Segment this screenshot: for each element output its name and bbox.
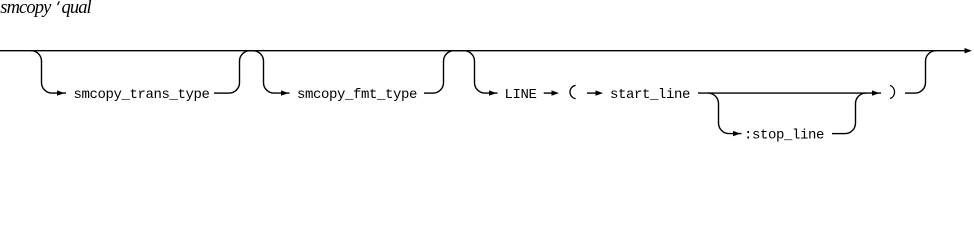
hump curve between smcopy_trans_type and smcopy_fmt_type (229, 51, 290, 93)
svg-text:smcopy_trans_type: smcopy_trans_type (74, 87, 210, 103)
arrowhead after LINE (552, 90, 560, 95)
wire level1 bypass after start_line to close paren arrow (698, 92, 881, 94)
arrowhead into smcopy_trans_type (57, 90, 65, 95)
main line (0, 50, 965, 52)
arrow shaft after open paren (587, 92, 596, 94)
close paren (890, 85, 895, 98)
title underscore tick (58, 1, 60, 5)
arrow shaft after LINE (544, 92, 552, 94)
svg-text::stop_line: :stop_line (744, 127, 824, 143)
open paren (570, 85, 576, 98)
wire level2 after stop_line (832, 133, 845, 135)
arrowhead into LINE (489, 90, 497, 95)
svg-text:LINE: LINE (505, 87, 537, 103)
wire level1 after smcopy_trans_type (214, 92, 229, 94)
svg-text:smcopy_fmt_type: smcopy_fmt_type (297, 87, 417, 103)
arrowhead after open paren (596, 90, 604, 95)
rise curve from stop_line back to level1 (845, 93, 866, 134)
wire level1 after smcopy_fmt_type (424, 92, 433, 94)
wire level1 after close paren (905, 92, 915, 94)
drop curve from main line to smcopy_trans_type (31, 51, 66, 93)
drop curve from level1 to stop_line (708, 93, 742, 134)
arrowhead into stop_line (733, 131, 741, 136)
arrowhead into smcopy_fmt_type (281, 90, 289, 95)
arrowhead into close paren (872, 90, 880, 95)
svg-text:smcopy: smcopy (0, 0, 52, 18)
rise curve from close paren to main line (915, 51, 936, 93)
hump curve between smcopy_fmt_type and LINE (433, 51, 498, 93)
arrowhead at main line end (965, 48, 973, 53)
svg-text:start_line: start_line (610, 87, 690, 103)
svg-text:qual: qual (62, 0, 92, 18)
